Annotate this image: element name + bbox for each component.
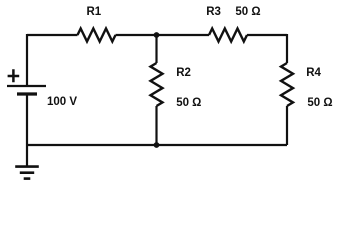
battery V1 short plate [17,92,37,95]
wire top-right horizontal [247,34,287,36]
battery V1 long plate [7,85,46,87]
resistor R1 [78,29,116,42]
node junction top (dot) [154,32,160,38]
svg-text:R4: R4 [306,67,321,79]
node junction bottom (dot) [154,142,160,148]
battery V1 plus sign [8,69,20,82]
wire middle vertical lower [155,106,157,145]
wire top-middle horizontal [116,34,210,36]
ground bar 1 [15,165,39,168]
wire right vertical upper [286,34,288,63]
resistor R4 [281,63,293,106]
resistor R2 [151,63,163,106]
svg-text:50 Ω: 50 Ω [307,97,332,109]
ground bar 3 [24,177,31,180]
wire bottom horizontal [27,144,287,146]
svg-text:100 V: 100 V [47,96,77,108]
wire left vertical lower [26,94,28,167]
svg-text:R3: R3 [206,6,221,18]
wire right vertical lower [286,106,288,145]
wire left vertical upper [26,34,28,86]
wire top-left horizontal [27,34,78,36]
svg-text:R1: R1 [87,6,102,18]
resistor R3 [209,29,247,42]
svg-text:50 Ω: 50 Ω [235,6,260,18]
ground bar 2 [20,171,34,174]
svg-text:R2: R2 [176,67,191,79]
wire middle vertical upper [155,34,157,63]
svg-text:50 Ω: 50 Ω [176,97,201,109]
